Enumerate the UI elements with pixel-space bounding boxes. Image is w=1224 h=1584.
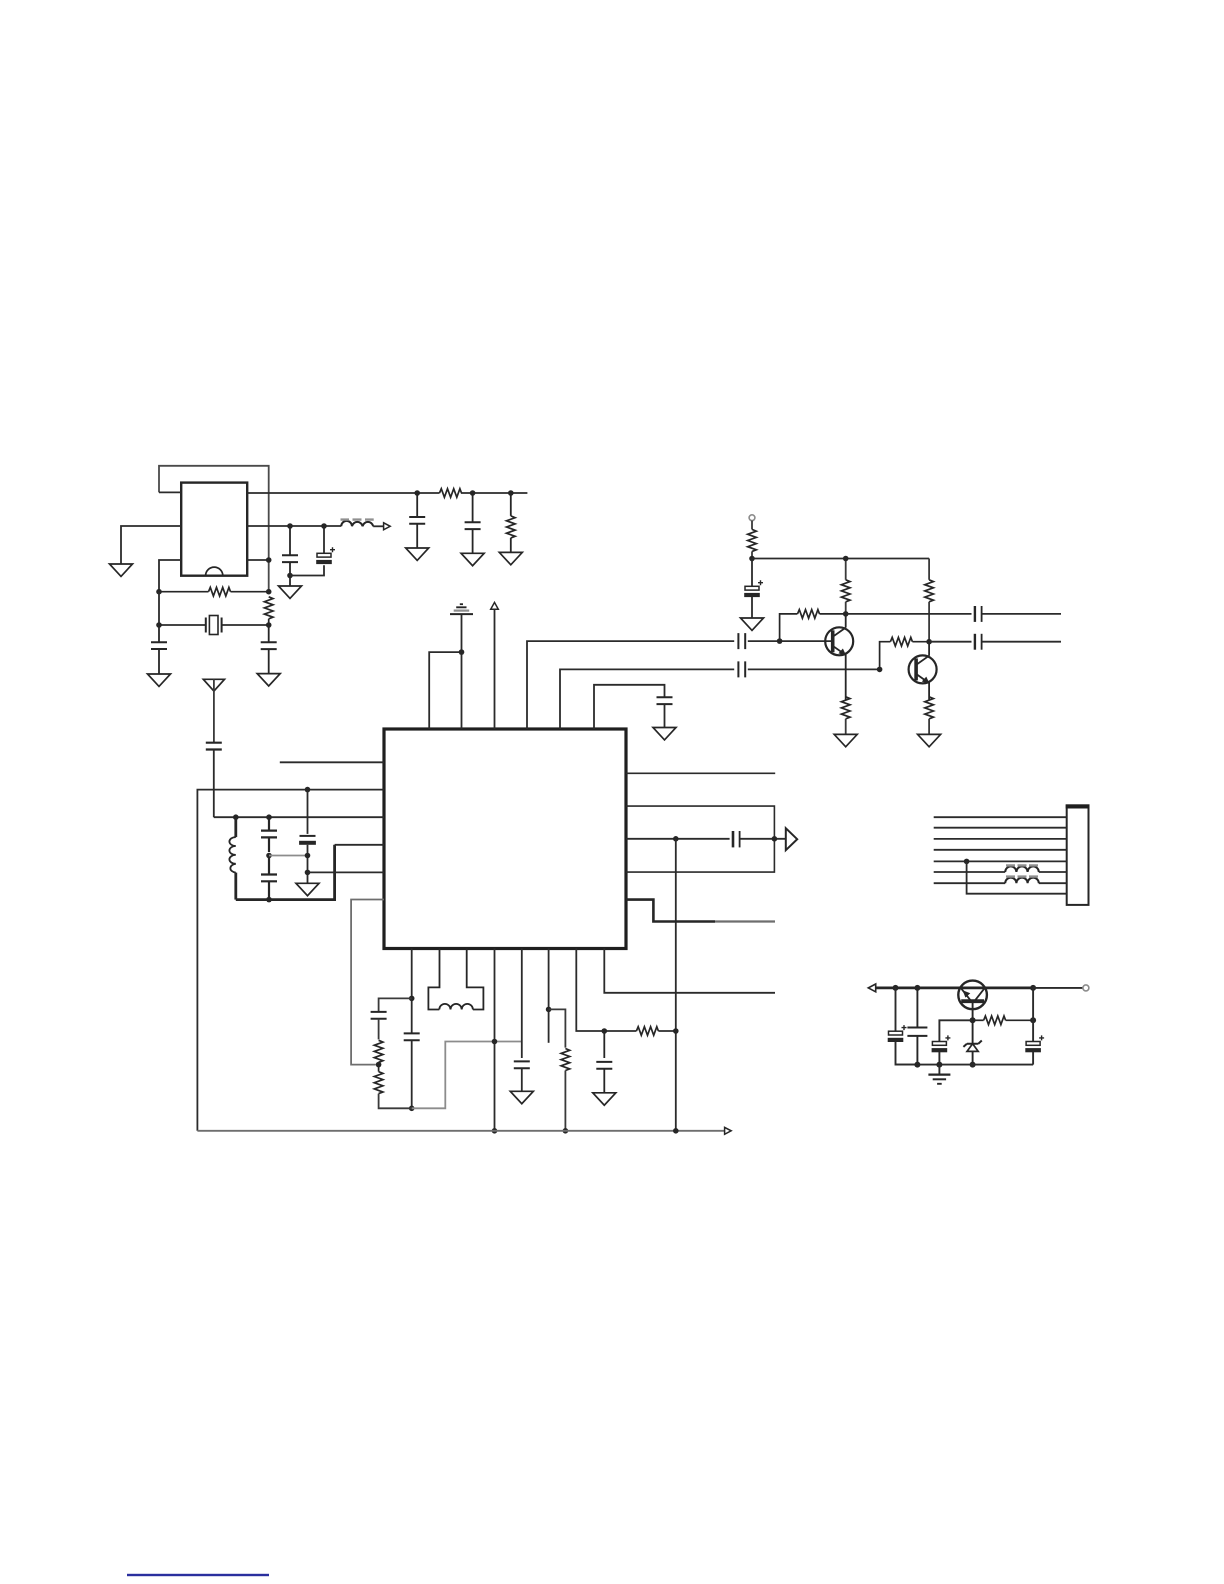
wire: U1 top pin 6 to bypass cap — [594, 685, 665, 729]
wire: U1 left pin RF in — [214, 816, 384, 818]
capacitor C8 (Q1 input coupling) — [738, 633, 745, 649]
wire: Q3 base branch — [939, 1020, 972, 1041]
wire: U1 top pin 1 L-link — [429, 652, 461, 729]
resistor R12 (Q1 feedback bias) — [780, 610, 846, 641]
wire: U1 bottom pin d with stub — [548, 949, 550, 1043]
ground — [279, 586, 302, 598]
transistor Q3 (regulator pass) — [958, 981, 987, 1021]
IC U1 (main tuner IC) — [384, 729, 626, 949]
wire: U1 right loop pins — [626, 806, 774, 872]
node — [266, 622, 272, 628]
resistor R2 (vertical, right of crystal) — [264, 597, 273, 625]
capacitor C13 (AGC filter) — [299, 790, 316, 884]
wire: U1 left stub pin — [280, 761, 384, 763]
node — [305, 853, 311, 859]
wire — [748, 668, 880, 670]
wire: U1 left pin AGC net — [197, 790, 384, 1131]
wire: U1 bottom pin a — [411, 949, 413, 1033]
capacitor C2 (right of crystal) — [261, 625, 277, 674]
ground — [653, 728, 676, 740]
resistor R10 (Q1 collector load) — [841, 559, 850, 614]
node — [914, 1062, 920, 1068]
node — [492, 1128, 498, 1134]
wire — [982, 641, 1061, 643]
node — [321, 523, 327, 529]
wire: tank bottom to U1 pin — [236, 845, 335, 900]
wire: regulator input rail — [876, 987, 1033, 990]
node — [546, 1007, 552, 1013]
resistor R4 (shunt) — [507, 493, 516, 552]
terminal: regulated output — [1033, 987, 1083, 989]
wire: Q1 output line — [846, 613, 972, 615]
capacitor C4 electrolytic — [290, 526, 335, 576]
wire: vertical from IF node down to AF rail — [675, 839, 677, 1131]
capacitor C20 (output coupling 1) — [975, 606, 982, 622]
node — [508, 490, 514, 496]
node: osc pin3 junction — [266, 557, 272, 563]
wire: osc pin3 left bracket — [159, 560, 181, 592]
inductor L2 (antenna tank) — [229, 817, 235, 899]
wire: CN1 pin 3 — [934, 838, 1067, 840]
wire: osc output rail top — [247, 492, 527, 494]
resistor R13 (Q1 emitter) — [841, 697, 850, 735]
wire: U1 bottom pin to bypass cap C17 — [521, 949, 523, 1059]
node — [409, 996, 415, 1002]
node — [470, 490, 476, 496]
wire: CN1 pin 7 with ferrite bead FB2 — [934, 882, 1067, 884]
resistor R6 — [374, 1065, 411, 1109]
wire — [740, 838, 786, 840]
wire: regulator ground rail — [896, 1064, 1034, 1066]
node — [964, 859, 970, 865]
wire — [658, 1030, 675, 1032]
ground — [257, 674, 280, 686]
wire: U1 bottom pin e to AGC resistor — [576, 949, 636, 1032]
arrow: IF output — [786, 828, 797, 850]
earth ground — [928, 1065, 950, 1084]
node — [772, 836, 778, 842]
transistor Q1 — [825, 614, 853, 700]
resistor R5 — [374, 1019, 383, 1065]
capacitor C21 (output coupling 2) — [975, 634, 982, 650]
zener diode D1 — [963, 1020, 981, 1064]
node — [936, 1062, 942, 1068]
node — [970, 1017, 976, 1023]
node — [914, 985, 920, 991]
ferrite bead FB1 — [1005, 865, 1039, 872]
node — [749, 556, 755, 562]
node — [673, 836, 679, 842]
resistor R1 (osc feedback) — [159, 587, 269, 596]
ground — [461, 553, 484, 565]
node — [156, 622, 162, 628]
ground — [918, 734, 941, 746]
node — [305, 870, 311, 876]
node — [926, 639, 932, 645]
wire: Q2 output line — [929, 641, 971, 643]
capacitor C1 (left of crystal) — [151, 625, 167, 674]
wire: U1 bottom pin f to right — [604, 949, 775, 993]
wire: AF bottom rail — [197, 1130, 724, 1132]
wire: CN1 pin 1 — [934, 816, 1067, 818]
node — [843, 611, 849, 617]
footer rule (blue) — [127, 1574, 269, 1576]
wire — [335, 844, 384, 846]
ground — [499, 552, 522, 564]
ground — [110, 564, 133, 576]
ground — [406, 548, 429, 560]
wire — [748, 640, 833, 642]
wire — [411, 1041, 413, 1109]
node — [287, 523, 293, 529]
ground — [741, 618, 764, 630]
inductor L1 (ferrite bead) — [341, 520, 384, 527]
capacitor C11 (tank top) — [261, 817, 277, 852]
wire: osc pin2 left to ground — [121, 526, 181, 564]
node — [305, 787, 311, 793]
capacitor C3 (osc output shunt) — [282, 526, 298, 586]
node — [414, 490, 420, 496]
resistor R3 (supply rail series) — [440, 489, 462, 498]
capacitor C14 (IF output) — [733, 831, 740, 847]
capacitor C10 — [657, 697, 673, 704]
wire: CN1 pin 5 — [934, 860, 1067, 862]
node — [843, 556, 849, 562]
node — [893, 985, 899, 991]
node — [266, 897, 272, 903]
resistor R15 (Q2 emitter) — [925, 697, 934, 735]
node — [1030, 985, 1036, 991]
wire: bottom link to bypass node — [412, 1042, 522, 1109]
wire — [664, 704, 666, 727]
node — [777, 638, 783, 644]
wire — [521, 1068, 523, 1091]
capacitor C25 electrolytic (reg output) — [1025, 988, 1044, 1065]
node — [673, 1028, 679, 1034]
capacitor C7 (antenna coupling) — [206, 743, 222, 818]
node — [1030, 1017, 1036, 1023]
capacitor C24 electrolytic — [932, 1035, 951, 1064]
wire: U1 right lower pin stepped — [626, 900, 775, 922]
capacitor C6 — [465, 493, 481, 553]
terminal: B+ input — [749, 515, 755, 521]
wire: U1 left lower pin (gray) — [351, 900, 384, 1065]
wire: U1 top pin 3 supply arrow — [494, 609, 496, 729]
node — [266, 853, 272, 859]
node — [492, 1039, 498, 1045]
resistor R7 — [549, 1009, 570, 1130]
node — [877, 667, 883, 673]
capacitor C9 (Q2 input coupling) — [738, 661, 745, 677]
resistor R14 (Q2 feedback bias) — [880, 637, 930, 669]
capacitor C18 — [596, 1031, 612, 1093]
wire: U1 top pin 2 to chassis ground — [461, 614, 463, 729]
wire: CN1 pin 6 with ferrite bead FB1 — [934, 871, 1067, 873]
arrow: osc output — [384, 523, 391, 530]
ground — [296, 883, 319, 895]
node — [459, 649, 465, 655]
wire: U1 top pin 5 to Q2 coupling cap — [560, 669, 734, 729]
capacitor C17 — [514, 1061, 530, 1068]
arrow: B+ feed left — [868, 984, 875, 992]
node — [266, 589, 272, 595]
arrow: supply up — [491, 602, 499, 609]
connector CN1 — [1066, 804, 1090, 905]
wire — [982, 613, 1061, 615]
capacitor C5 — [409, 493, 425, 548]
node — [970, 1062, 976, 1068]
arrow: AF out — [725, 1127, 732, 1134]
wire: osc pin1 left — [159, 491, 181, 493]
node — [156, 589, 162, 595]
wire: amp supply rail — [752, 558, 929, 560]
node — [233, 814, 239, 820]
wire: gray link — [269, 855, 308, 857]
chassis ground — [450, 604, 473, 614]
node — [563, 1128, 569, 1134]
wire: crystal net left — [159, 592, 269, 625]
node — [602, 1028, 608, 1034]
resistor R16 — [973, 1016, 1034, 1025]
wire: osc pin3 right — [247, 559, 269, 561]
node — [287, 573, 293, 579]
capacitor C12 (tank bottom) — [261, 856, 277, 900]
ground — [148, 674, 171, 686]
wire: CN1 pin 2 — [934, 827, 1067, 829]
wire: U1 right IF out pin — [626, 838, 730, 840]
node — [673, 1128, 679, 1134]
capacitor C23 (reg input ceramic) — [907, 988, 927, 1065]
resistor R8 — [636, 1027, 658, 1036]
wire: osc pin2 right — [247, 525, 341, 527]
capacitor C15 — [404, 1033, 420, 1040]
capacitor C19 electrolytic (supply filter) — [744, 559, 763, 619]
node — [266, 814, 272, 820]
ground — [593, 1093, 616, 1105]
capacitor C16 — [371, 1012, 387, 1019]
wire: oscillator feedback loop outer box — [159, 466, 269, 592]
wire: CN1 pin 4 — [934, 849, 1067, 851]
wire: U1 top pin 4 to Q1 coupling cap — [527, 641, 734, 729]
wire: RC branch left — [379, 998, 412, 1012]
oscillator module X1 — [181, 483, 247, 576]
node — [409, 1106, 415, 1112]
ferrite bead FB2 — [1005, 877, 1039, 884]
antenna ANT1 — [203, 679, 224, 743]
wire: CN1 pin 8 jumper — [967, 861, 1067, 893]
resistor R11 (Q2 collector load) — [925, 559, 934, 642]
transistor Q2 — [909, 642, 937, 700]
ground — [834, 734, 857, 746]
wire: U1 bottom pin c long vertical — [494, 949, 496, 1131]
resistor R9 (supply dropper) — [748, 521, 757, 559]
capacitor C22 electrolytic (reg input) — [888, 988, 918, 1065]
wire — [308, 871, 385, 873]
inductor L3 (U-shaped, U1 bottom) — [428, 949, 483, 1010]
wire: U1 right stub pin — [626, 772, 775, 774]
crystal Y1 — [206, 616, 222, 635]
node — [376, 1062, 382, 1068]
ground — [510, 1091, 533, 1103]
